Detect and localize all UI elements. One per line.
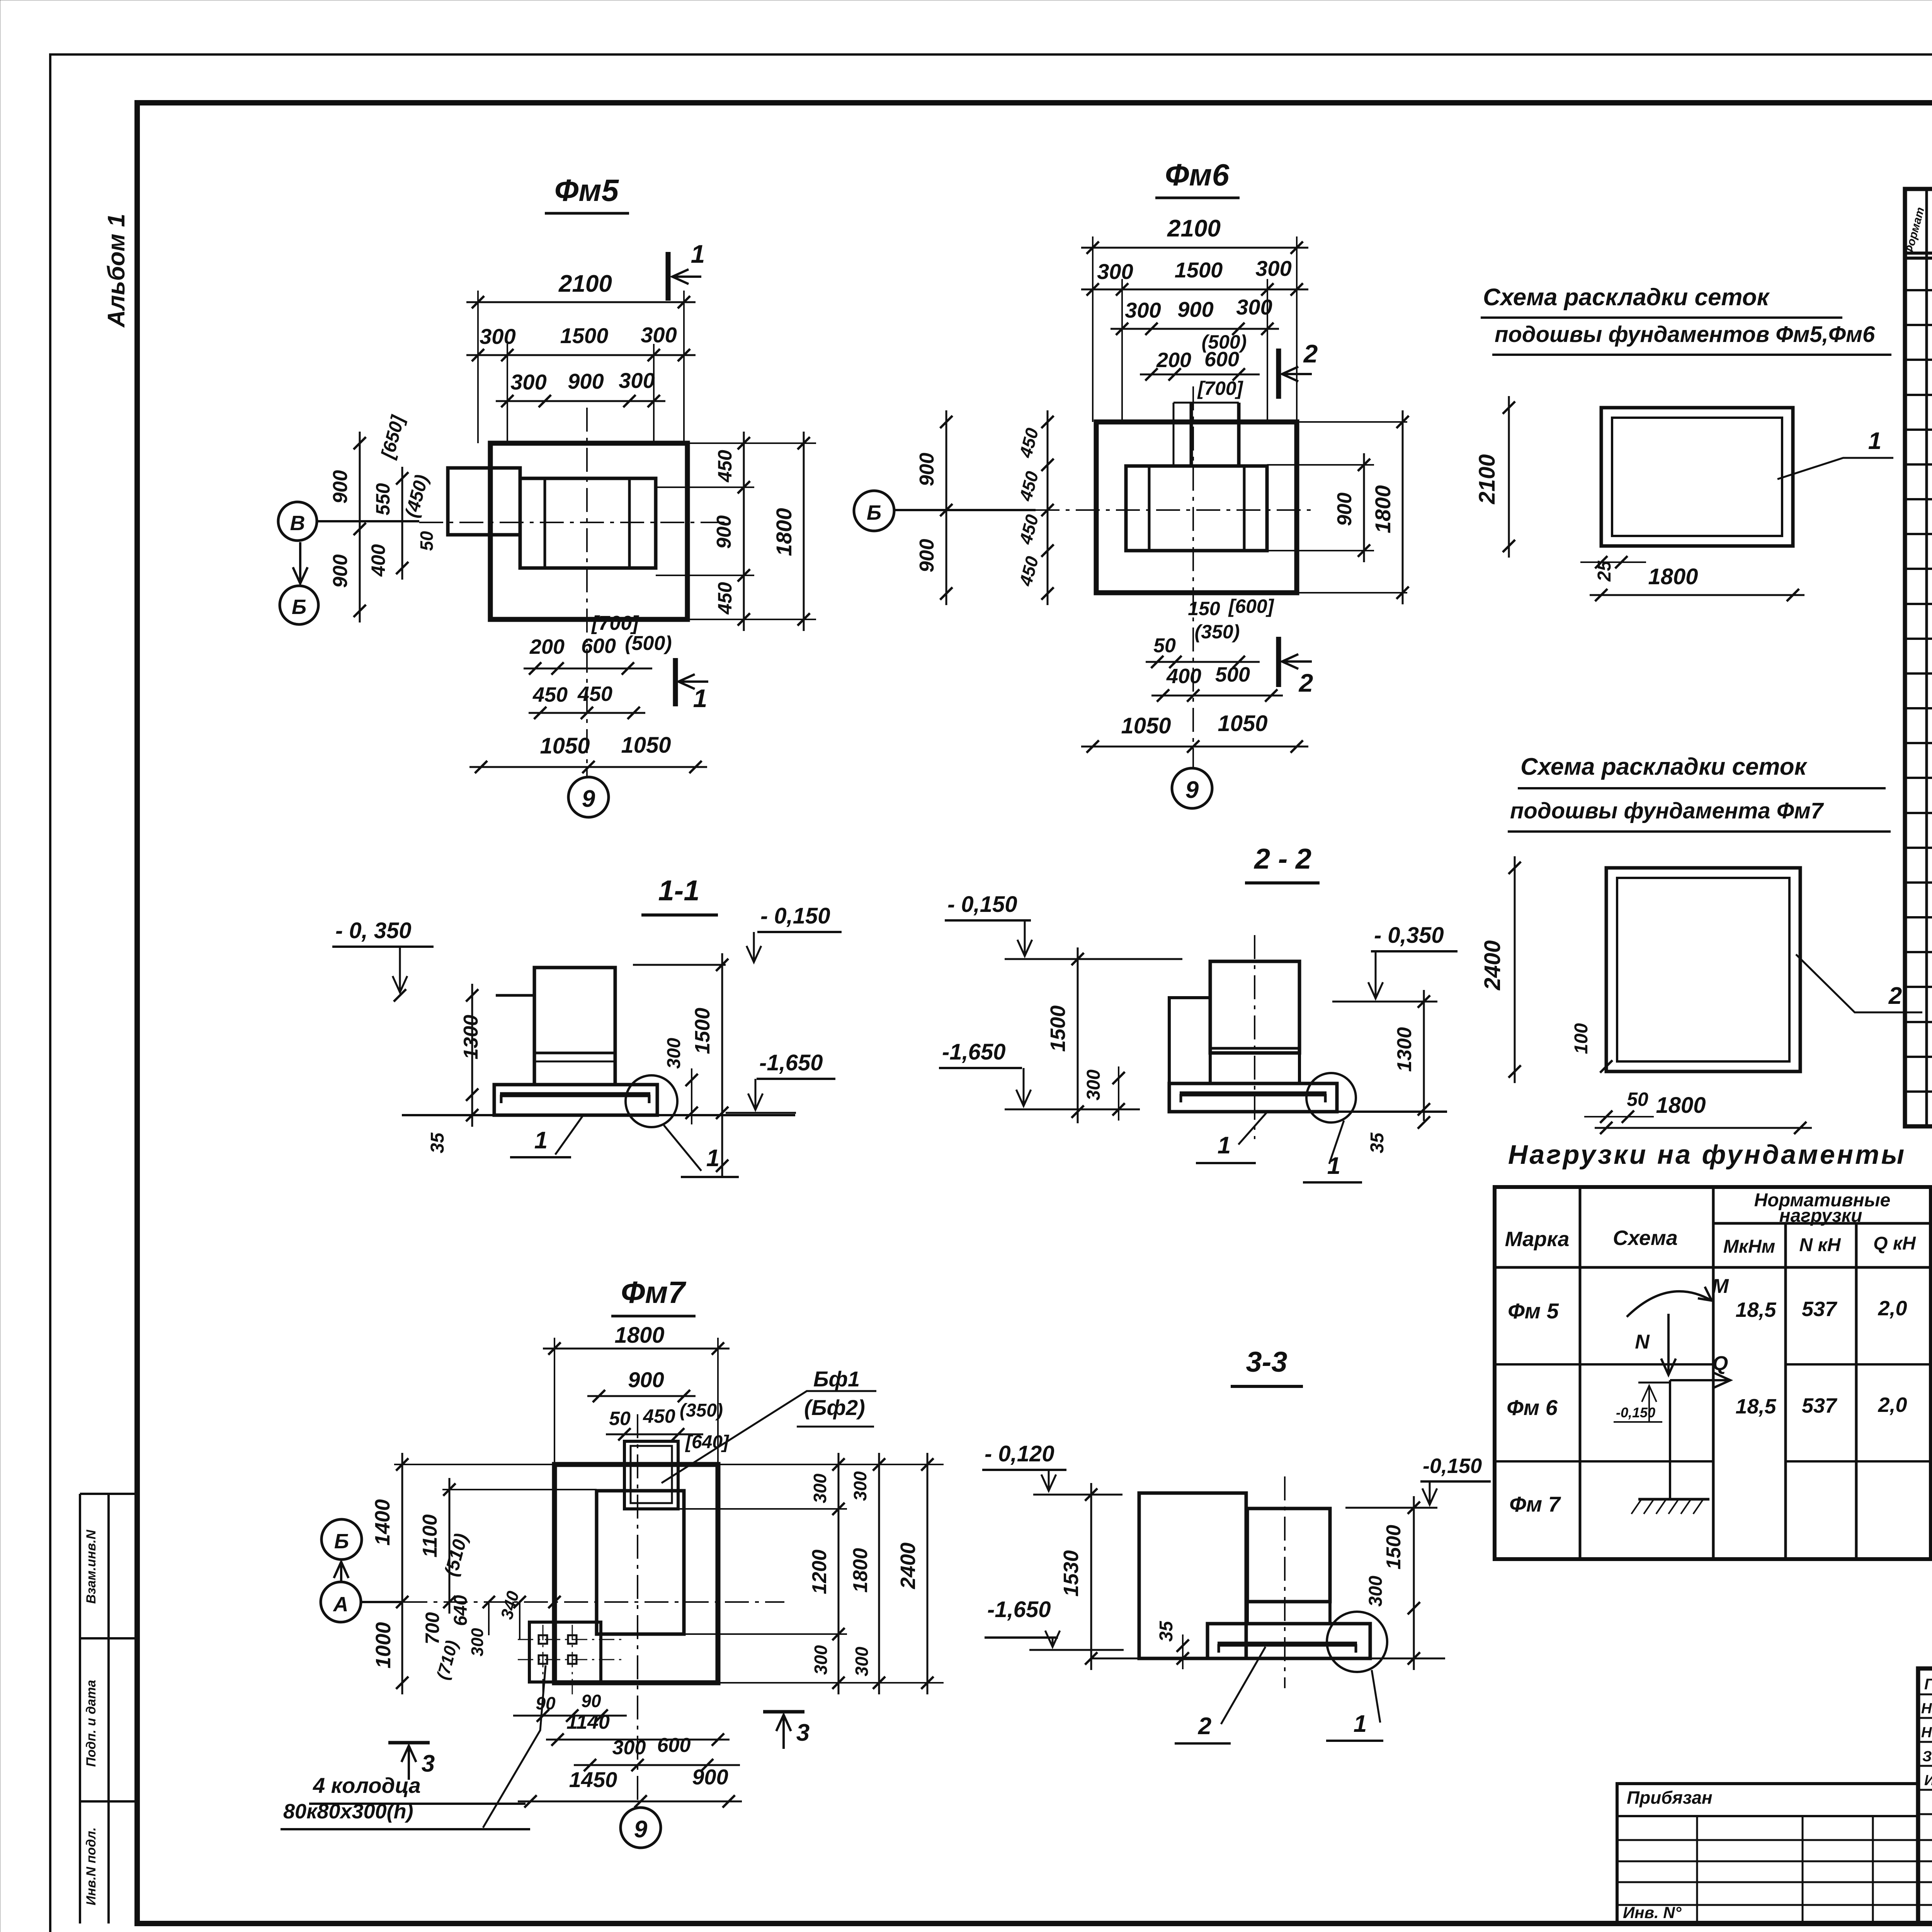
svg-text:400: 400: [367, 544, 389, 577]
svg-text:M: M: [1712, 1275, 1729, 1298]
svg-text:Бф1: Бф1: [813, 1367, 860, 1391]
FM5 axis circle B: [280, 586, 318, 624]
svg-text:500: 500: [1215, 663, 1250, 686]
FM7 anchor channel: [624, 1441, 678, 1509]
svg-text:3: 3: [796, 1719, 810, 1746]
svg-text:1: 1: [691, 240, 705, 268]
section 1-1 dim 1300: [471, 984, 473, 1127]
svg-text:300: 300: [641, 323, 677, 347]
FM7 right dims: [718, 1464, 944, 1465]
section 3-3 column: [1247, 1509, 1330, 1602]
loads table frame: [1495, 1187, 1931, 1559]
svg-text:450: 450: [1015, 426, 1042, 460]
svg-text:1500: 1500: [691, 1008, 714, 1054]
svg-text:Зав.гр.: Зав.гр.: [1922, 1748, 1932, 1765]
svg-text:[700]: [700]: [591, 612, 639, 634]
loads table schema sketch: [1627, 1291, 1712, 1317]
svg-text:2,0: 2,0: [1878, 1393, 1907, 1417]
svg-text:1050: 1050: [1218, 711, 1267, 736]
svg-text:1100: 1100: [419, 1514, 441, 1558]
svg-text:Инв.N подл.: Инв.N подл.: [84, 1827, 99, 1905]
section 2-2 axis: [1254, 935, 1255, 1139]
svg-text:1: 1: [706, 1145, 719, 1172]
svg-text:300: 300: [468, 1628, 487, 1656]
svg-text:2100: 2100: [558, 270, 612, 297]
svg-text:1050: 1050: [1121, 713, 1171, 738]
svg-text:400: 400: [1166, 665, 1201, 688]
FM6 right dims: [1297, 421, 1407, 423]
svg-text:300: 300: [1097, 259, 1133, 284]
section 2-2 slab: [1169, 1083, 1337, 1112]
svg-text:2,0: 2,0: [1878, 1297, 1907, 1320]
FM7 dim 900 top: [587, 1395, 696, 1397]
svg-text:- 0,120: - 0,120: [985, 1441, 1054, 1466]
svg-text:Инв. N°: Инв. N°: [1623, 1903, 1682, 1922]
svg-text:1500: 1500: [1175, 258, 1223, 282]
svg-text:Зона: Зона: [1930, 214, 1932, 248]
svg-text:4 колодца: 4 колодца: [313, 1773, 421, 1798]
section 1-1 rebar mesh 1: [500, 1092, 650, 1097]
FM5 right dims: [687, 442, 816, 444]
svg-text:2400: 2400: [896, 1543, 920, 1589]
spec table frame: [1905, 189, 1932, 1126]
svg-text:1: 1: [1327, 1153, 1340, 1179]
svg-text:450: 450: [643, 1405, 675, 1427]
svg-text:1800: 1800: [1656, 1093, 1706, 1118]
svg-text:- 0,150: - 0,150: [760, 903, 830, 929]
svg-text:50: 50: [1153, 634, 1176, 657]
svg-text:1000: 1000: [372, 1622, 395, 1668]
FM7 foundation pad: [554, 1464, 718, 1683]
svg-text:Фм 5: Фм 5: [1508, 1299, 1559, 1323]
svg-text:(Бф2): (Бф2): [804, 1395, 865, 1420]
scheme S1 dim 2100: [1508, 396, 1510, 558]
svg-text:50: 50: [417, 531, 437, 551]
svg-text:А: А: [333, 1593, 349, 1616]
section 3-3 left block: [1139, 1493, 1246, 1658]
section 2-2 leader 1 left: [1238, 1112, 1267, 1145]
section 2-2 column: [1210, 961, 1299, 1053]
svg-text:300: 300: [510, 370, 546, 394]
svg-text:35: 35: [1367, 1132, 1388, 1153]
FM5 axis circle V: [278, 502, 317, 541]
FM7 section mark 3 bottom left: [388, 1741, 430, 1745]
svg-text:3-3: 3-3: [1246, 1346, 1287, 1378]
section 1-1 detail circle: [626, 1075, 677, 1127]
svg-text:90: 90: [581, 1691, 601, 1711]
section 1-1 ground line: [402, 1114, 795, 1116]
svg-text:Фм6: Фм6: [1165, 158, 1230, 192]
svg-text:(450): (450): [401, 473, 432, 520]
section 3-3 rebar mesh 2: [1218, 1642, 1357, 1647]
svg-text:600: 600: [1204, 348, 1239, 371]
FM7 axes: [363, 1601, 784, 1603]
section 2-2 leader 1 right: [1329, 1121, 1344, 1164]
svg-text:2: 2: [1198, 1713, 1211, 1740]
svg-text:подошвы фундамента Фм7: подошвы фундамента Фм7: [1510, 798, 1824, 823]
svg-text:300: 300: [810, 1473, 830, 1503]
svg-text:90: 90: [536, 1693, 556, 1713]
svg-text:1500: 1500: [1046, 1005, 1070, 1052]
svg-text:700: 700: [422, 1612, 443, 1645]
spec table row grid: [1905, 289, 1932, 291]
svg-text:(510): (510): [441, 1531, 472, 1578]
svg-text:900: 900: [713, 515, 735, 549]
svg-text:Нагрузки на фундаменты: Нагрузки на фундаменты: [1508, 1139, 1906, 1170]
svg-text:Н.контр.: Н.контр.: [1921, 1725, 1932, 1741]
svg-text:Фм 6: Фм 6: [1507, 1395, 1558, 1420]
svg-text:600: 600: [581, 634, 616, 658]
svg-text:18,5: 18,5: [1735, 1395, 1776, 1418]
svg-text:1500: 1500: [560, 323, 609, 348]
svg-text:(500): (500): [625, 632, 672, 655]
svg-text:Q кН: Q кН: [1873, 1233, 1916, 1254]
svg-text:450: 450: [714, 582, 736, 615]
svg-text:N: N: [1635, 1331, 1650, 1353]
section 3-3 pedestal: [1247, 1602, 1330, 1624]
svg-text:200: 200: [1156, 349, 1191, 372]
FM5 dim 2100: [466, 301, 696, 303]
section 2-2 ground line: [1337, 1111, 1447, 1113]
svg-text:Марка: Марка: [1505, 1228, 1570, 1251]
svg-text:1: 1: [1218, 1132, 1231, 1159]
svg-text:1: 1: [534, 1127, 548, 1154]
svg-text:1-1: 1-1: [658, 874, 700, 906]
section 1-1 leader 1 left: [555, 1116, 583, 1155]
FM5 horizontal axis B: [419, 522, 730, 523]
section 3-3 dim 1530: [1090, 1483, 1092, 1670]
FM7 axis circles A B: [321, 1519, 362, 1560]
svg-text:Фм5: Фм5: [554, 173, 619, 207]
svg-text:Инж.: Инж.: [1924, 1772, 1932, 1789]
svg-text:300: 300: [1236, 295, 1272, 319]
FM5 axis circle 9: [568, 777, 609, 817]
FM5 vertical axis 9: [586, 408, 588, 777]
FM5 column: [520, 478, 656, 568]
FM6 foundation pad: [1096, 422, 1297, 593]
svg-text:200: 200: [529, 635, 565, 658]
svg-text:-0,150: -0,150: [1423, 1454, 1482, 1478]
left margin stamp boxes: [79, 1494, 81, 1923]
svg-text:(710): (710): [433, 1638, 462, 1682]
svg-text:-1,650: -1,650: [987, 1597, 1051, 1622]
FM5 section mark 1 bottom: [673, 658, 678, 706]
svg-text:[640]: [640]: [685, 1432, 730, 1452]
svg-text:900: 900: [916, 539, 938, 573]
svg-text:1800: 1800: [614, 1323, 664, 1348]
svg-text:1140: 1140: [566, 1711, 610, 1733]
svg-text:450: 450: [577, 682, 612, 706]
section 2-2 dim 1500: [1077, 947, 1079, 1123]
FM5 section mark 1 top: [666, 252, 671, 301]
svg-text:Б: Б: [292, 595, 306, 619]
svg-text:300: 300: [612, 1736, 646, 1759]
section 2-2 dim 1300: [1423, 990, 1425, 1121]
svg-text:[700]: [700]: [1197, 378, 1244, 399]
svg-text:2100: 2100: [1167, 215, 1221, 242]
svg-text:1800: 1800: [772, 508, 796, 556]
FM7 axis circle 9: [621, 1808, 661, 1848]
section 3-3 leader 1: [1372, 1670, 1380, 1723]
FM6 vertical axis: [1192, 386, 1194, 768]
svg-text:1: 1: [1354, 1711, 1367, 1737]
FM6 dim 300 1500 300: [1081, 289, 1308, 291]
svg-text:N кН: N кН: [1799, 1235, 1841, 1255]
svg-text:1450: 1450: [569, 1767, 617, 1792]
FM6 horizontal axis B: [1036, 509, 1314, 511]
svg-text:1050: 1050: [621, 733, 671, 758]
svg-text:300: 300: [850, 1471, 870, 1501]
FM7 section mark 3 top right: [763, 1710, 804, 1714]
svg-text:25: 25: [1594, 560, 1615, 582]
FM6 anchor stub: [1190, 403, 1193, 466]
svg-text:Q: Q: [1713, 1352, 1728, 1375]
svg-text:900: 900: [329, 470, 352, 504]
section 1-1 dim 1500: [721, 953, 723, 1177]
svg-text:(350): (350): [680, 1400, 723, 1421]
svg-text:80к80х300(h): 80к80х300(h): [283, 1800, 413, 1823]
svg-text:900: 900: [692, 1765, 728, 1789]
svg-text:Схема раскладки сеток: Схема раскладки сеток: [1520, 753, 1808, 780]
svg-text:- 0,350: - 0,350: [1374, 923, 1444, 948]
svg-text:1: 1: [1868, 428, 1881, 454]
svg-text:640: 640: [451, 1595, 471, 1626]
FM7 dim 1800 top: [543, 1348, 730, 1350]
FM6 section mark 2 bottom: [1276, 637, 1281, 687]
svg-text:3: 3: [422, 1750, 435, 1777]
svg-text:1050: 1050: [540, 733, 590, 759]
svg-text:Взам.инв.N: Взам.инв.N: [84, 1529, 99, 1604]
section 1-1 leader 1 right: [664, 1125, 701, 1171]
svg-text:подошвы фундаментов Фм5,Фм6: подошвы фундаментов Фм5,Фм6: [1495, 322, 1875, 347]
section 3-3 slab: [1207, 1624, 1370, 1658]
svg-text:2: 2: [1303, 339, 1318, 368]
FM6 dim 2100: [1081, 247, 1308, 249]
svg-text:2400: 2400: [1480, 940, 1505, 990]
svg-text:Б: Б: [867, 501, 881, 524]
svg-text:300: 300: [852, 1646, 872, 1676]
svg-text:[650]: [650]: [377, 413, 408, 461]
svg-text:[600]: [600]: [1228, 595, 1275, 617]
FM7 column: [597, 1491, 684, 1634]
svg-text:50: 50: [1627, 1088, 1648, 1110]
svg-text:1300: 1300: [1393, 1027, 1416, 1072]
svg-text:450: 450: [1015, 469, 1042, 503]
FM7 anchor plate with bolts: [529, 1622, 601, 1682]
svg-text:1400: 1400: [371, 1499, 394, 1546]
svg-text:35: 35: [1156, 1621, 1177, 1642]
svg-text:- 0,150: - 0,150: [947, 892, 1017, 917]
FM6 section mark 2 top: [1276, 349, 1281, 399]
svg-text:Прибязан: Прибязан: [1627, 1787, 1713, 1808]
FM6 axis circle 9: [1172, 768, 1212, 808]
loads table ground hatch: [1638, 1498, 1709, 1501]
svg-text:1200: 1200: [808, 1549, 831, 1594]
svg-text:100: 100: [1571, 1023, 1592, 1054]
section 2-2 pedestal: [1210, 1053, 1299, 1083]
svg-text:300: 300: [1366, 1576, 1386, 1607]
svg-text:-1,650: -1,650: [759, 1050, 823, 1075]
svg-text:450: 450: [1015, 554, 1042, 588]
section 1-1 step left: [496, 994, 534, 997]
svg-text:35: 35: [427, 1132, 448, 1153]
FM6 left dims: [946, 410, 947, 605]
svg-text:1500: 1500: [1383, 1525, 1405, 1570]
scheme S2 leader 2: [1796, 954, 1922, 1012]
svg-text:- 0, 350: - 0, 350: [335, 918, 412, 943]
svg-text:150: 150: [1188, 598, 1220, 619]
svg-text:300: 300: [1125, 298, 1161, 322]
svg-text:Альбом 1: Альбом 1: [103, 214, 130, 328]
svg-text:Фм7: Фм7: [621, 1275, 687, 1310]
svg-text:Схема раскладки сеток: Схема раскладки сеток: [1483, 284, 1770, 311]
svg-text:(350): (350): [1195, 621, 1240, 643]
svg-text:9: 9: [634, 1816, 648, 1843]
section 1-1 slab: [494, 1085, 657, 1115]
svg-text:300: 300: [480, 324, 515, 349]
svg-text:1530: 1530: [1060, 1550, 1083, 1597]
svg-text:300: 300: [619, 368, 655, 393]
svg-text:537: 537: [1802, 1298, 1838, 1321]
section 3-3 axis: [1284, 1476, 1286, 1688]
svg-text:2100: 2100: [1475, 454, 1500, 504]
FM5 foundation pad: [490, 443, 687, 619]
svg-text:50: 50: [609, 1408, 631, 1429]
svg-text:В: В: [290, 512, 305, 535]
svg-text:Подп. и дата: Подп. и дата: [84, 1680, 99, 1767]
svg-text:9: 9: [1185, 777, 1199, 803]
FM5 left dims: [359, 432, 361, 622]
scheme S2 dim 2400: [1514, 856, 1516, 1083]
scheme S1 mesh C1-23: [1601, 408, 1793, 546]
scheme S1 dim 1800: [1590, 594, 1804, 596]
section 2-2 step block left: [1169, 998, 1210, 1083]
FM5 left protrusion: [448, 468, 520, 535]
svg-text:Схема: Схема: [1613, 1226, 1678, 1250]
FM6 dim 300 900 300: [1111, 328, 1279, 330]
svg-text:900: 900: [329, 554, 352, 588]
svg-text:1800: 1800: [849, 1548, 872, 1593]
svg-text:Б: Б: [334, 1530, 349, 1553]
svg-text:-1,650: -1,650: [942, 1039, 1005, 1065]
svg-text:900: 900: [1177, 297, 1213, 321]
FM6 axis circle B left: [854, 491, 894, 531]
svg-text:900: 900: [628, 1367, 664, 1392]
svg-text:450: 450: [532, 683, 568, 706]
scheme S2 mesh C1-44: [1606, 868, 1800, 1071]
svg-text:9: 9: [582, 786, 595, 812]
svg-text:МкНм: МкНм: [1723, 1236, 1775, 1257]
svg-text:1300: 1300: [460, 1015, 482, 1060]
svg-text:1: 1: [693, 684, 707, 713]
svg-text:300: 300: [811, 1645, 831, 1675]
scheme S2 dim 1800: [1595, 1127, 1812, 1129]
FM7 left dims: [394, 1464, 554, 1465]
svg-text:ГИП: ГИП: [1924, 1676, 1932, 1693]
svg-text:Фм 7: Фм 7: [1509, 1492, 1561, 1516]
scheme S1 leader 1: [1777, 458, 1893, 479]
svg-text:Нач.отд.: Нач.отд.: [1921, 1701, 1932, 1717]
svg-text:2 - 2: 2 - 2: [1253, 843, 1311, 875]
svg-text:1800: 1800: [1648, 564, 1698, 589]
svg-text:900: 900: [568, 369, 604, 393]
svg-text:300: 300: [1255, 256, 1291, 281]
svg-text:2: 2: [1888, 983, 1902, 1009]
FM5 dim 300 900 300: [496, 400, 665, 402]
section 3-3 ground line: [1091, 1658, 1445, 1660]
svg-text:18,5: 18,5: [1735, 1298, 1776, 1321]
FM7 leader BF1: [662, 1391, 876, 1483]
svg-text:537: 537: [1802, 1394, 1838, 1417]
svg-text:900: 900: [916, 453, 938, 486]
svg-text:550: 550: [372, 483, 394, 515]
svg-text:300: 300: [664, 1038, 684, 1069]
svg-text:600: 600: [657, 1734, 691, 1757]
svg-text:2: 2: [1298, 668, 1313, 697]
title block main frame: [1918, 1668, 1932, 1923]
FM6 column: [1126, 466, 1267, 551]
section 1-1 column: [534, 968, 615, 1085]
svg-text:нагрузки: нагрузки: [1779, 1206, 1862, 1226]
svg-text:900: 900: [1333, 493, 1356, 526]
title block sub-table pribyazan: [1617, 1784, 1918, 1923]
svg-text:300: 300: [1083, 1070, 1104, 1100]
FM5 dim 300 1500 300: [466, 354, 696, 356]
section 2-2 rebar mesh 1: [1180, 1092, 1327, 1097]
svg-text:450: 450: [1015, 512, 1042, 547]
svg-text:1800: 1800: [1371, 485, 1395, 534]
section 2-2 detail circle: [1306, 1073, 1356, 1122]
section 3-3 detail circle: [1327, 1612, 1387, 1672]
svg-text:450: 450: [714, 450, 736, 483]
section 3-3 leader 2: [1221, 1647, 1265, 1724]
